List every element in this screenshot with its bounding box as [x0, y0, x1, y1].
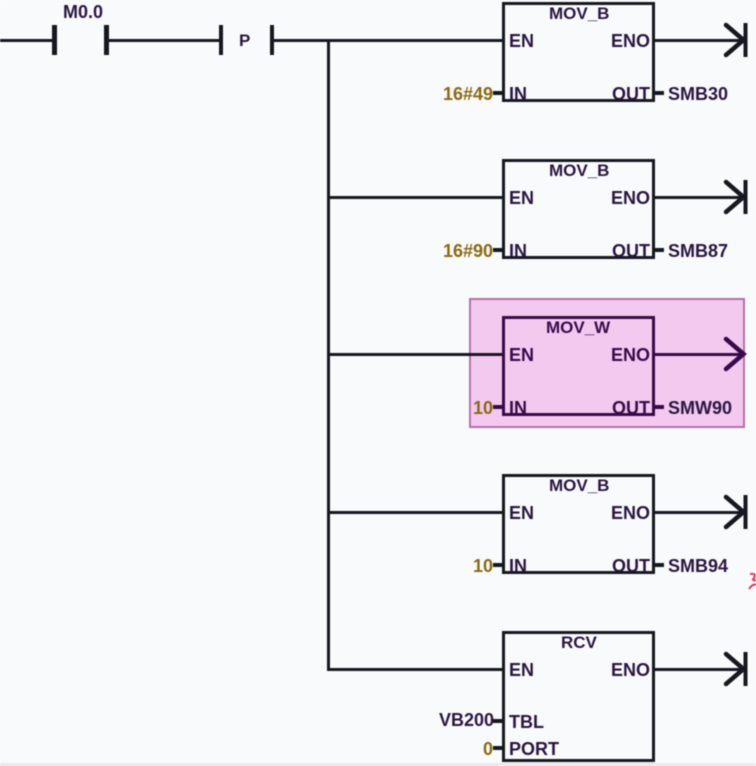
constant 16#90: [391, 241, 493, 262]
bottom window edge: [0, 763, 756, 766]
branch wire rung 3 (crosses highlight): [328, 353, 503, 357]
wire: left power rail to contact M0.0: [0, 39, 53, 43]
ENO arrow rung 4: [720, 490, 752, 534]
pin tick IN rung 4: [493, 563, 503, 567]
contact P (positive edge): [0, 0, 756, 1]
ENO arrow rung 5: [720, 647, 752, 691]
pin tick OUT rung 3: [655, 405, 664, 409]
operand SMW90: [668, 398, 732, 419]
wire: contact M0.0 to contact P: [107, 39, 220, 43]
wire: contact P to MOV_B block rung 1: [273, 39, 503, 43]
pin tick TBL: [493, 719, 503, 723]
constant 10 (rung 3): [391, 398, 493, 419]
ENO wire rung 2: [655, 196, 743, 200]
pin tick OUT rung 2: [655, 248, 664, 252]
block MOV_B rung 4 (U4): [0, 471, 756, 473]
branch wire rung 4: [328, 511, 503, 515]
branch wire rung 2: [328, 196, 503, 200]
operand SMB87: [668, 241, 728, 262]
selection highlight around MOV_W block: [469, 298, 745, 428]
ENO arrow rung 3 (no bar, inside highlight): [720, 332, 752, 376]
block MOV_W rung 3 (U3, selected): [0, 313, 756, 315]
ENO arrow rung 2: [720, 175, 752, 219]
block MOV_B rung 2 (U2): [0, 156, 756, 158]
constant 16#49: [391, 84, 493, 105]
ENO arrow rung 1: [720, 18, 752, 62]
pin tick OUT rung 1: [655, 91, 664, 95]
constant 0 (PORT): [391, 739, 493, 760]
pin tick PORT: [493, 746, 503, 750]
operand SMB94: [668, 556, 728, 577]
block RCV rung 5 (U5): [0, 628, 756, 630]
ENO wire rung 4: [655, 511, 743, 515]
operand SMB30: [668, 84, 728, 105]
ENO wire rung 3: [655, 353, 743, 357]
pin tick IN rung 2: [493, 248, 503, 252]
vertical rail (branch bus): [327, 39, 331, 671]
red mark (clipped text) at right edge: [748, 572, 756, 594]
block MOV_B rung 1 (U1): [0, 0, 756, 1]
pin tick OUT rung 4: [655, 563, 664, 567]
ENO wire rung 1: [655, 39, 743, 43]
constant 10 (rung 4): [391, 556, 493, 577]
contact M0.0: [0, 0, 756, 1]
ENO wire rung 5: [655, 668, 743, 672]
pin tick IN rung 1: [493, 91, 503, 95]
pin tick IN rung 3: [493, 405, 503, 409]
branch wire rung 5: [328, 668, 503, 672]
operand VB200: [439, 710, 494, 731]
